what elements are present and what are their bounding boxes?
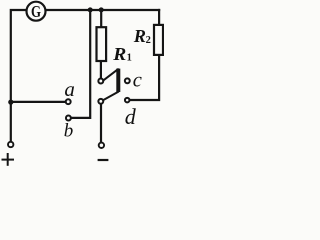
wire right column top: corner down to R2 [158, 10, 160, 25]
junction dot top 2 [99, 7, 104, 12]
wire R1 bottom stub to pole P1 [100, 61, 102, 78]
svg-text:R: R [112, 44, 126, 64]
galvanometer G [27, 2, 46, 21]
switch pole P2 [98, 99, 103, 104]
resistor R2 [154, 25, 163, 55]
wire R1 top stub [100, 10, 102, 27]
switch blade bar [116, 69, 120, 92]
svg-text:d: d [125, 104, 137, 129]
resistor R1 [97, 27, 107, 61]
wire from contact b up to top wire [72, 10, 90, 118]
junction dot top 1 [88, 7, 93, 12]
switch blade lower link from P2 [103, 92, 118, 100]
minus sign [98, 159, 109, 161]
svg-text:2: 2 [146, 35, 151, 46]
svg-text:c: c [133, 70, 142, 92]
svg-text:a: a [64, 77, 75, 101]
wire top-left from corner to galvanometer [11, 10, 26, 141]
svg-text:1: 1 [127, 53, 132, 64]
svg-text:b: b [64, 121, 74, 142]
wire branch to contact a [11, 101, 65, 103]
contact a [66, 99, 71, 104]
contact d [125, 98, 130, 103]
switch pole P1 [98, 79, 103, 84]
svg-text:R: R [133, 26, 146, 46]
switch blade upper link from P1 [103, 69, 118, 80]
contact b [66, 116, 71, 121]
contact c [125, 78, 130, 83]
positive terminal [8, 142, 13, 147]
wire top from galvanometer to top-right corner [47, 9, 160, 11]
junction dot on left wire [8, 100, 13, 105]
negative terminal [99, 143, 104, 148]
wire R2 bottom to corner and left to contact d [130, 55, 159, 100]
plus sign [2, 153, 15, 166]
wire pole P2 down to negative terminal [100, 105, 102, 142]
svg-text:G: G [31, 2, 41, 21]
